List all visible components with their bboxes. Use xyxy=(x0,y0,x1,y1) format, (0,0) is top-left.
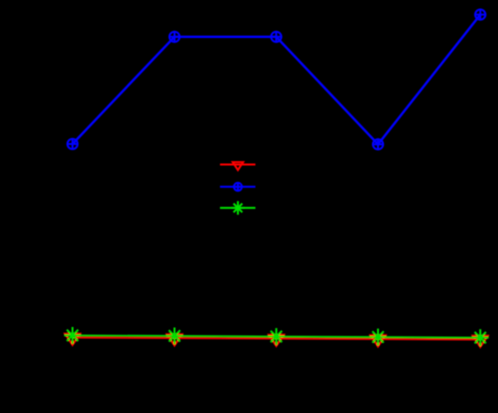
green series polyline xyxy=(73,335,481,337)
legend blue circle-plus marker xyxy=(233,182,243,192)
red marker 1 xyxy=(65,334,80,345)
blue marker 1 xyxy=(67,138,79,150)
blue series polyline xyxy=(73,15,481,145)
red marker 5 xyxy=(473,336,488,347)
red series polyline xyxy=(73,338,481,340)
legend red sample line xyxy=(220,164,255,166)
legend green sample line xyxy=(220,207,255,209)
green marker 5 xyxy=(472,329,489,346)
legend red triangle marker xyxy=(233,162,243,170)
legend green asterisk marker xyxy=(231,201,245,215)
blue marker 5 xyxy=(474,9,486,21)
blue marker 3 xyxy=(270,31,282,43)
red marker 2 xyxy=(167,334,182,345)
red marker 4 xyxy=(371,335,386,346)
legend blue sample line xyxy=(220,186,255,188)
blue marker 4 xyxy=(372,138,384,150)
green marker 3 xyxy=(268,328,285,345)
red marker 3 xyxy=(269,335,284,346)
green marker 2 xyxy=(166,328,183,345)
blue marker 2 xyxy=(169,31,181,43)
green marker 4 xyxy=(370,329,387,346)
green marker 1 xyxy=(64,327,81,344)
